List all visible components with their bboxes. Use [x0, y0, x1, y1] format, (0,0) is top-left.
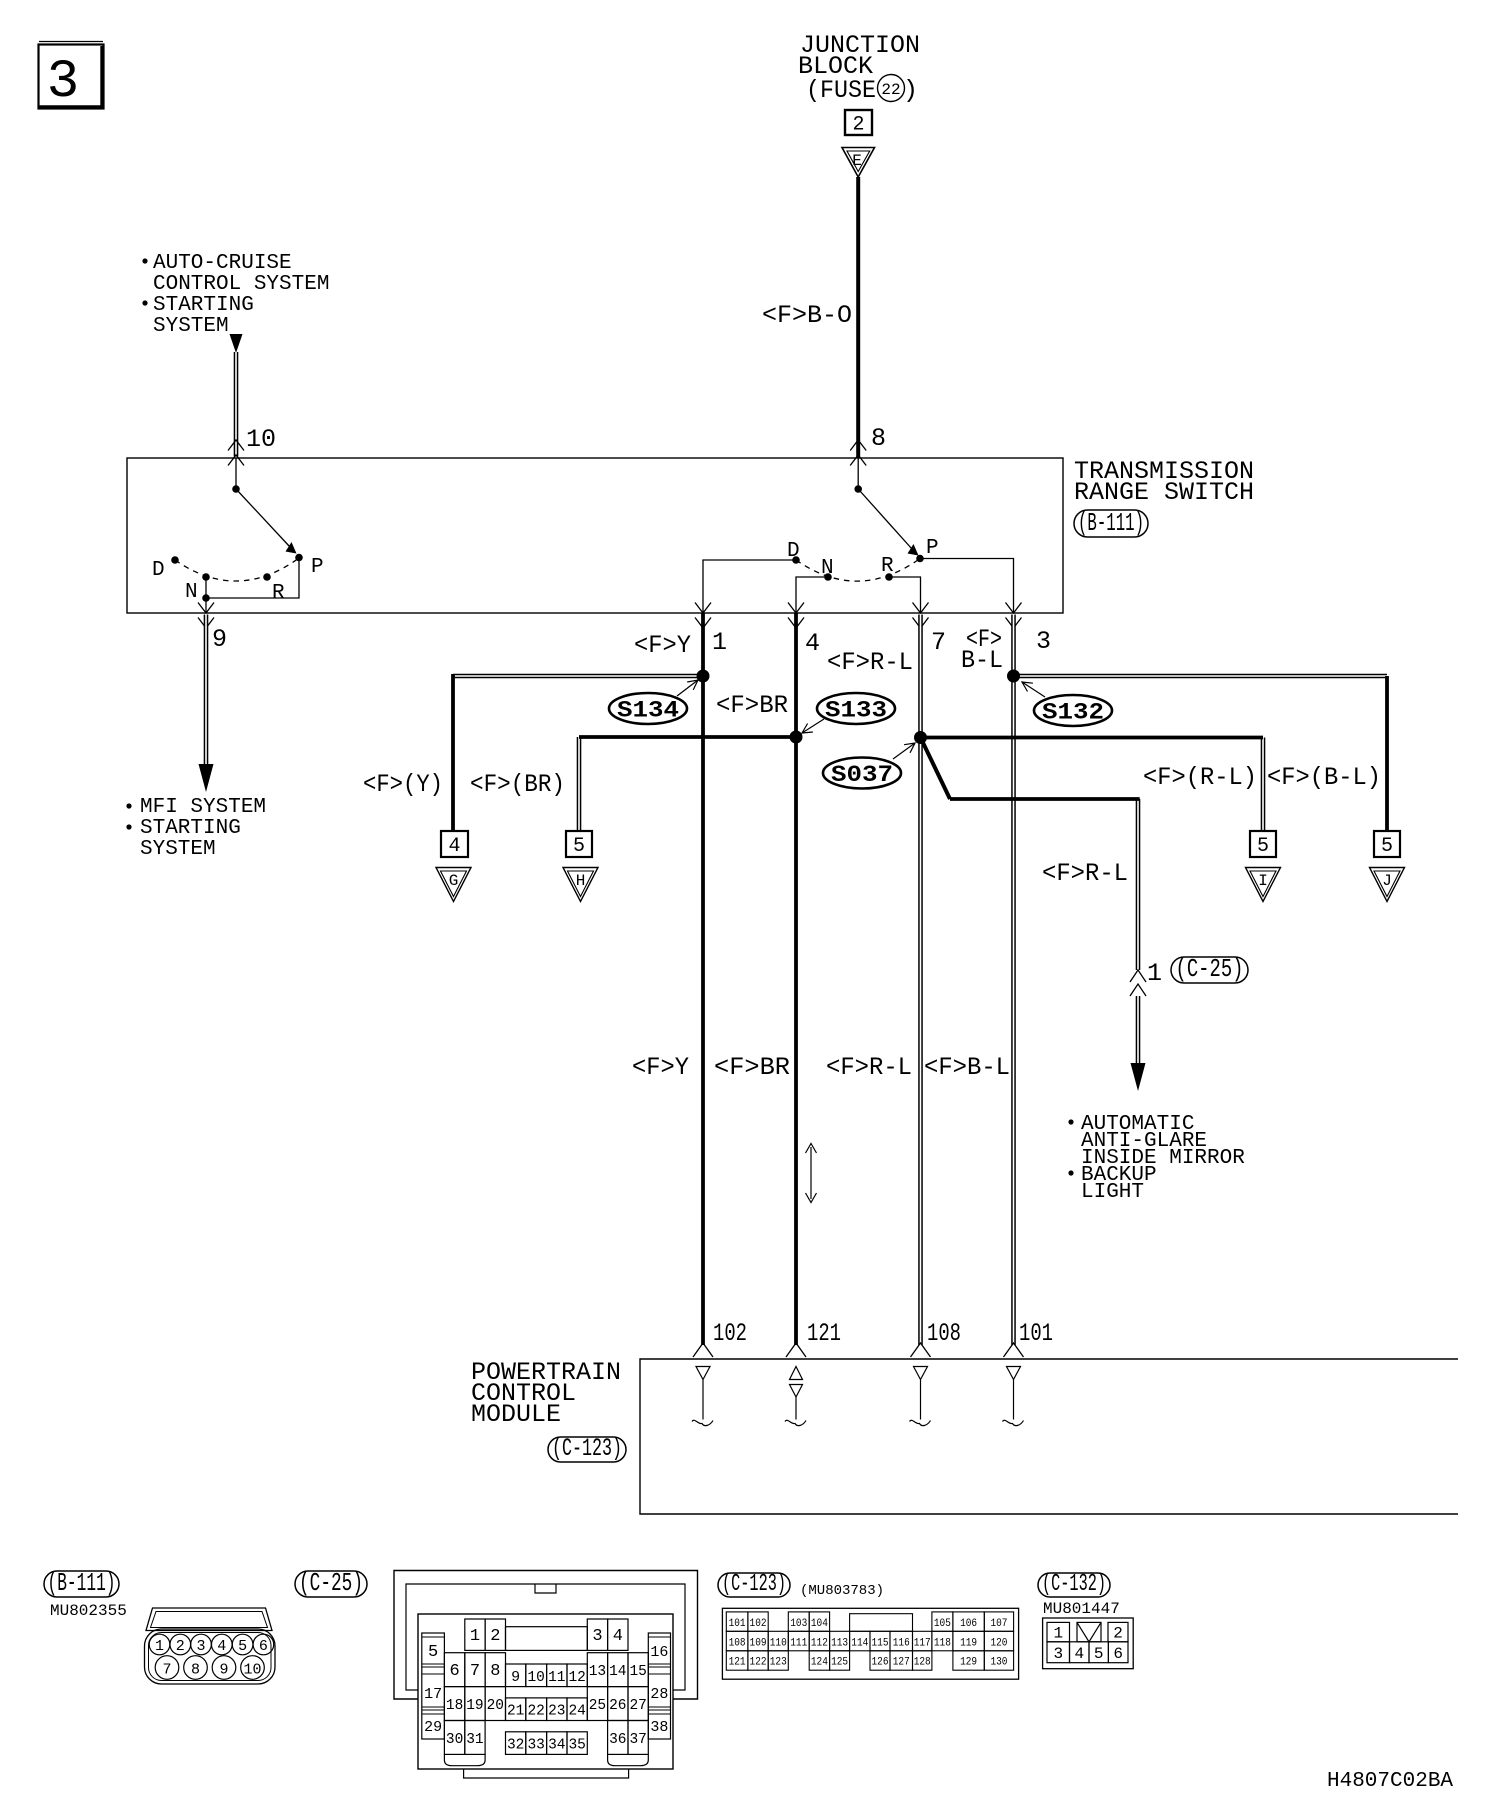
svg-text:11: 11 — [548, 1670, 565, 1686]
terminal box 4 (G) — [441, 831, 468, 857]
right switch dashed travel arc — [796, 559, 920, 582]
triangle G — [436, 868, 471, 902]
left switch N-P link — [206, 558, 299, 599]
branch wire S132 horizontal — [1014, 674, 1388, 679]
svg-text:24: 24 — [568, 1704, 585, 1720]
svg-text:19: 19 — [466, 1698, 483, 1714]
svg-text:31: 31 — [466, 1732, 483, 1748]
svg-text:H: H — [576, 872, 586, 890]
right switch contact P — [916, 555, 924, 563]
svg-text:MU802355: MU802355 — [50, 1602, 127, 1620]
terminal box 5 (I) — [1250, 831, 1276, 857]
left switch contact R — [263, 573, 271, 581]
svg-text:S134: S134 — [617, 698, 679, 724]
svg-text:15: 15 — [629, 1664, 646, 1680]
branch wire S134 vertical to G — [451, 674, 455, 831]
svg-text:N: N — [185, 581, 198, 604]
svg-text:130: 130 — [990, 1657, 1007, 1669]
svg-text:D: D — [152, 559, 165, 582]
PCM entry chevron 102 — [693, 1343, 713, 1357]
svg-text:P: P — [311, 556, 324, 579]
svg-text:10: 10 — [527, 1670, 544, 1686]
triangle I — [1246, 868, 1281, 902]
svg-text:107: 107 — [990, 1618, 1007, 1630]
branch wire S037 horizontal to C-25 — [950, 797, 1140, 801]
svg-text:6: 6 — [259, 1638, 268, 1655]
right switch P to pin 3 — [920, 559, 1014, 614]
svg-text:B-L: B-L — [961, 646, 1003, 675]
right switch wiper — [858, 489, 912, 549]
svg-text:STARTING: STARTING — [140, 817, 241, 840]
connector ref B-111 — [1074, 510, 1148, 537]
right switch R to pin 7 — [889, 577, 921, 613]
splice label S132 — [1034, 695, 1112, 726]
svg-text:18: 18 — [446, 1698, 463, 1714]
right switch D to pin 1 — [703, 560, 796, 613]
svg-text:LIGHT: LIGHT — [1081, 1181, 1144, 1204]
svg-text:118: 118 — [934, 1637, 951, 1649]
branch wire S132 vertical to J — [1385, 676, 1389, 831]
svg-text:7: 7 — [470, 1662, 480, 1681]
svg-text:R: R — [272, 582, 285, 605]
connector C-25 pin view — [394, 1571, 698, 1700]
svg-text:1: 1 — [155, 1638, 164, 1655]
svg-text:101: 101 — [729, 1618, 746, 1630]
right switch contact R — [885, 573, 893, 581]
svg-text:109: 109 — [750, 1637, 767, 1649]
svg-text:17: 17 — [424, 1686, 442, 1703]
svg-text:105: 105 — [934, 1618, 951, 1630]
svg-text:3: 3 — [47, 52, 79, 113]
svg-text:108: 108 — [729, 1637, 746, 1649]
svg-text:CONTROL SYSTEM: CONTROL SYSTEM — [153, 273, 329, 296]
svg-text:4: 4 — [1074, 1645, 1084, 1663]
svg-text:110: 110 — [770, 1637, 787, 1649]
svg-text:8: 8 — [191, 1662, 200, 1679]
svg-text:SYSTEM: SYSTEM — [140, 838, 216, 861]
svg-text:104: 104 — [811, 1618, 828, 1630]
exit chevrons pin 4 — [788, 603, 804, 614]
svg-text:122: 122 — [750, 1657, 767, 1669]
svg-text:5: 5 — [1257, 835, 1269, 858]
svg-text:4: 4 — [805, 629, 820, 658]
svg-text:7: 7 — [931, 628, 946, 657]
mfi note — [126, 803, 131, 808]
PCM entry chevron 121 — [786, 1343, 806, 1357]
svg-text:P: P — [926, 537, 939, 560]
svg-text:102: 102 — [750, 1618, 767, 1630]
svg-text:6: 6 — [449, 1662, 459, 1681]
svg-text:<F>R-L: <F>R-L — [827, 648, 913, 677]
svg-text:3: 3 — [1053, 1645, 1063, 1663]
svg-text:23: 23 — [548, 1704, 565, 1720]
svg-text:2: 2 — [852, 114, 864, 137]
svg-text:121: 121 — [729, 1657, 746, 1669]
wire to pin 10 — [234, 352, 239, 457]
svg-text:1: 1 — [1147, 959, 1162, 988]
right switch N to pin 4 — [796, 577, 828, 613]
svg-text:5: 5 — [1381, 835, 1393, 858]
C-25 break chevrons — [1130, 970, 1146, 982]
svg-text:30: 30 — [446, 1732, 463, 1748]
svg-text:115: 115 — [872, 1637, 889, 1649]
svg-text:RANGE SWITCH: RANGE SWITCH — [1074, 478, 1254, 507]
wire pin4 to PCM 121 (F)BR — [794, 613, 798, 1345]
svg-text:128: 128 — [914, 1657, 931, 1669]
svg-text:114: 114 — [851, 1637, 868, 1649]
terminal box 5 (J) — [1374, 831, 1400, 857]
svg-text:3: 3 — [1036, 627, 1051, 656]
wire (F)B-O junction block to range switch — [856, 177, 860, 458]
svg-text:7: 7 — [162, 1662, 171, 1679]
wire pin1 to PCM 102 (F)Y — [701, 613, 705, 1345]
svg-text:1: 1 — [1053, 1625, 1063, 1643]
svg-text:<F>B-L: <F>B-L — [924, 1053, 1010, 1082]
svg-text:3: 3 — [196, 1638, 205, 1655]
splice S037 — [914, 731, 927, 744]
wire to C-25 vertical lower — [1136, 996, 1141, 1063]
svg-text:14: 14 — [609, 1664, 626, 1680]
svg-text:MU801447: MU801447 — [1043, 1600, 1120, 1618]
svg-text:2: 2 — [490, 1627, 500, 1646]
svg-text:MODULE: MODULE — [471, 1400, 561, 1429]
svg-text:10: 10 — [243, 1662, 261, 1679]
wire 9 to MFI system — [204, 615, 209, 765]
left switch contact N — [202, 573, 210, 581]
svg-text:27: 27 — [629, 1698, 646, 1714]
branch wire S037 horizontal to I — [921, 736, 1264, 740]
svg-text:2: 2 — [1113, 1625, 1123, 1643]
branch wire S133 vertical — [577, 737, 582, 831]
svg-text:108: 108 — [927, 1319, 961, 1348]
svg-text:AUTO-CRUISE: AUTO-CRUISE — [153, 252, 292, 275]
svg-text:120: 120 — [990, 1637, 1007, 1649]
svg-text:117: 117 — [914, 1637, 931, 1649]
splice S134 — [697, 670, 710, 683]
svg-text:6: 6 — [1113, 1645, 1123, 1663]
svg-text:119: 119 — [960, 1637, 977, 1649]
svg-text:16: 16 — [650, 1644, 668, 1661]
PCM internal symbol 108 — [914, 1367, 928, 1380]
svg-text:9: 9 — [511, 1669, 520, 1686]
svg-text:125: 125 — [831, 1657, 848, 1669]
offpage arrow up (auto-cruise) — [230, 334, 243, 353]
branch wire S037 to I vertical — [1261, 738, 1266, 832]
triangle H — [563, 868, 598, 902]
svg-text:124: 124 — [811, 1657, 828, 1669]
splice label S037 — [823, 758, 901, 789]
svg-text:(C-25): (C-25) — [299, 1568, 363, 1598]
svg-text:(B-111): (B-111) — [48, 1568, 116, 1598]
splice label S133 — [817, 693, 895, 724]
mirror backup note — [1068, 1119, 1073, 1124]
splice S132 — [1007, 670, 1020, 683]
svg-text:32: 32 — [507, 1738, 524, 1754]
svg-text:E: E — [852, 152, 862, 170]
svg-text:1: 1 — [712, 628, 727, 657]
takeoff triangle E — [842, 148, 875, 178]
branch wire S134 horizontal — [453, 674, 703, 679]
svg-text:101: 101 — [1019, 1319, 1053, 1348]
svg-text:20: 20 — [487, 1698, 504, 1714]
PCM internal symbol 121 — [790, 1367, 803, 1380]
svg-text:5: 5 — [238, 1638, 247, 1655]
svg-text:<F>(BR): <F>(BR) — [470, 770, 565, 799]
right switch wire in — [857, 458, 859, 489]
connector C-132 pin view — [1043, 1618, 1134, 1669]
svg-text:3: 3 — [592, 1627, 602, 1646]
connector B-111 pin view — [146, 1608, 272, 1631]
svg-text:2: 2 — [176, 1638, 185, 1655]
right switch contact N — [824, 573, 832, 581]
left switch output node — [202, 594, 210, 602]
svg-text:35: 35 — [568, 1738, 585, 1754]
terminal box 5 (H) — [566, 831, 592, 857]
connector ref B-111 (view) — [44, 1571, 119, 1597]
svg-text:4: 4 — [613, 1627, 623, 1646]
PCM internal symbol 101 — [1007, 1367, 1021, 1380]
svg-text:22: 22 — [527, 1704, 544, 1720]
svg-text:111: 111 — [790, 1637, 807, 1649]
svg-text:SYSTEM: SYSTEM — [153, 315, 229, 338]
svg-text:<F>BR: <F>BR — [714, 1053, 790, 1082]
svg-text:5: 5 — [573, 835, 585, 858]
left switch wire to pin 9 — [205, 598, 207, 613]
svg-text:116: 116 — [893, 1637, 910, 1649]
svg-text:J: J — [1382, 872, 1392, 890]
left switch wire in — [235, 458, 237, 489]
exit chevrons pin 1 — [695, 603, 711, 614]
svg-text:25: 25 — [589, 1698, 606, 1714]
svg-text:26: 26 — [609, 1698, 626, 1714]
svg-text:126: 126 — [872, 1657, 889, 1669]
svg-text:9: 9 — [219, 1662, 228, 1679]
svg-text:38: 38 — [650, 1719, 668, 1736]
left switch contact D — [171, 556, 179, 564]
svg-text:13: 13 — [589, 1664, 606, 1680]
svg-text:G: G — [449, 872, 459, 890]
exit chevrons pin 9 — [198, 603, 214, 614]
svg-text:<F>(Y): <F>(Y) — [363, 770, 443, 799]
svg-text:R: R — [881, 555, 894, 578]
svg-text:10: 10 — [246, 425, 276, 454]
svg-text:22: 22 — [881, 81, 900, 99]
connector C-123 pin view — [722, 1608, 1018, 1679]
svg-text:121: 121 — [807, 1319, 841, 1348]
svg-text:<F>B-O: <F>B-O — [762, 301, 852, 330]
svg-text:29: 29 — [424, 1719, 442, 1736]
wire pin3 to PCM 101 (F)B-L — [1011, 615, 1016, 1346]
svg-text:112: 112 — [811, 1637, 828, 1649]
double-headed arrow — [810, 1147, 812, 1199]
svg-text:33: 33 — [527, 1738, 544, 1754]
svg-text:123: 123 — [770, 1657, 787, 1669]
triangle J — [1370, 868, 1405, 902]
offpage arrow down (MFI) — [199, 764, 214, 792]
connector ref C-25 (inline) — [1171, 957, 1248, 983]
svg-text:9: 9 — [212, 625, 227, 654]
svg-text:MFI SYSTEM: MFI SYSTEM — [140, 796, 266, 819]
wire pin7 to PCM 108 (F)R-L — [918, 615, 923, 1346]
svg-text:(C-123): (C-123) — [552, 1434, 622, 1463]
entry chevrons pin 10 — [228, 440, 244, 451]
svg-text:5: 5 — [428, 1643, 438, 1662]
svg-text:103: 103 — [790, 1618, 807, 1630]
connector ref C-123 (view) — [718, 1573, 790, 1597]
PCM internal symbol 102 — [696, 1367, 710, 1380]
splice S133 — [790, 731, 803, 744]
svg-text:S133: S133 — [825, 698, 887, 724]
PCM entry chevron 108 — [911, 1343, 931, 1357]
connector ref C-123 (module) — [548, 1437, 626, 1462]
connector ref C-25 (view) — [295, 1571, 367, 1597]
svg-text:21: 21 — [507, 1704, 524, 1720]
entry chevrons pin 8 — [850, 440, 866, 451]
page number box 3 — [39, 45, 104, 109]
svg-text:): ) — [903, 76, 918, 105]
svg-text:5: 5 — [1094, 1645, 1104, 1663]
PCM entry chevron 101 — [1004, 1343, 1024, 1357]
svg-text:<F>R-L: <F>R-L — [826, 1053, 912, 1082]
svg-text:(C-25): (C-25) — [1176, 954, 1244, 984]
svg-text:4: 4 — [448, 835, 460, 858]
svg-text:(MU803783): (MU803783) — [800, 1583, 884, 1599]
auto-cruise note — [142, 258, 147, 263]
svg-text:8: 8 — [871, 424, 886, 453]
svg-text:(B-111): (B-111) — [1078, 508, 1144, 538]
left switch wiper — [236, 489, 290, 547]
svg-text:<F>Y: <F>Y — [632, 1053, 689, 1082]
svg-text:28: 28 — [650, 1686, 668, 1703]
svg-text:(C-123): (C-123) — [722, 1571, 786, 1598]
left switch common node — [232, 485, 240, 493]
svg-text:36: 36 — [609, 1732, 626, 1748]
svg-text:113: 113 — [831, 1637, 848, 1649]
svg-text:H4807C02BA: H4807C02BA — [1327, 1770, 1453, 1793]
svg-text:S132: S132 — [1042, 700, 1104, 726]
svg-text:106: 106 — [960, 1618, 977, 1630]
branch diagonal S037 — [921, 738, 951, 800]
svg-text:I: I — [1258, 872, 1268, 890]
offpage arrow down (mirror) — [1131, 1063, 1146, 1091]
svg-text:<F>R-L: <F>R-L — [1042, 859, 1128, 888]
right switch contact D — [792, 556, 800, 564]
svg-text:<F>(R-L): <F>(R-L) — [1143, 763, 1257, 792]
junction block terminal 2 — [845, 110, 872, 135]
svg-text:127: 127 — [893, 1657, 910, 1669]
transmission range switch box — [127, 458, 1063, 613]
svg-text:STARTING: STARTING — [153, 294, 254, 317]
svg-text:<F>BR: <F>BR — [716, 691, 788, 720]
connector ref C-132 (view) — [1038, 1573, 1110, 1597]
branch wire S133 horizontal — [579, 735, 796, 739]
svg-text:<F>(B-L): <F>(B-L) — [1267, 763, 1381, 792]
svg-text:<F>Y: <F>Y — [634, 631, 691, 660]
right switch common node — [854, 485, 862, 493]
exit chevrons pin 7 — [913, 603, 929, 614]
svg-text:(FUSE: (FUSE — [806, 76, 876, 105]
svg-text:34: 34 — [548, 1738, 565, 1754]
powertrain control module box — [640, 1359, 1458, 1514]
svg-text:4: 4 — [217, 1638, 226, 1655]
svg-text:1: 1 — [470, 1627, 480, 1646]
exit chevrons pin 3 — [1006, 603, 1022, 614]
svg-text:(C-132): (C-132) — [1042, 1571, 1106, 1598]
svg-text:12: 12 — [568, 1670, 585, 1686]
svg-text:129: 129 — [960, 1657, 977, 1669]
svg-text:102: 102 — [713, 1319, 747, 1348]
left switch contact P — [295, 554, 303, 562]
splice label S134 — [609, 693, 687, 724]
svg-text:S037: S037 — [831, 762, 893, 788]
wire to C-25 vertical upper — [1136, 799, 1141, 970]
svg-text:37: 37 — [629, 1732, 646, 1748]
svg-text:8: 8 — [490, 1662, 500, 1681]
left switch dashed travel arc — [175, 558, 299, 581]
